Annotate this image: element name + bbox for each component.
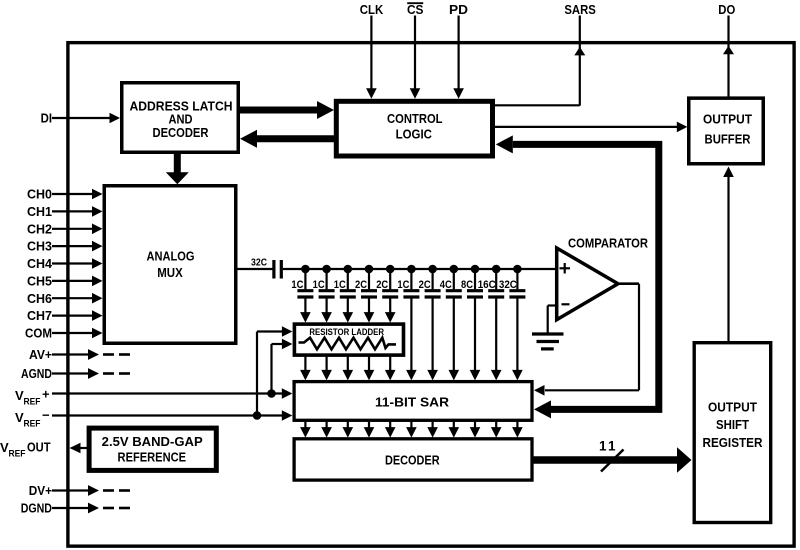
node: cap bus junction 4 [365,265,374,274]
pin VREF+ [15,387,292,407]
bus: address latch to control logic [239,101,334,119]
node: cap bus junction 8 [450,265,459,274]
pin CH3 [27,239,103,254]
pin CLK [360,2,384,99]
capacitor 1C (bit 3) [334,269,356,323]
block: ADDRESS LATCH AND DECODER U1 [122,83,239,153]
pin CH5 [27,274,103,289]
pin COM [25,326,103,341]
pin VREF- [15,408,292,429]
wire: SAR bit 5 to decoder [385,421,396,438]
capacitor 1C (bit 1) [291,269,313,323]
wire: output shift register to output buffer [723,167,734,344]
wire: SAR bit 3 to decoder [343,421,354,438]
svg-text:BUFFER: BUFFER [705,131,752,146]
block: OUTPUT SHIFT REGISTER U8 [694,343,771,523]
pin VREFOUT [0,440,89,459]
capacitor 16C (bit 10) [478,269,505,380]
resistor ladder zigzag symbol [299,338,397,350]
bus: control logic to address latch [240,130,337,148]
pin CH1 [27,204,103,219]
pin CH6 [27,291,103,306]
capacitor 2C (bit 5) [376,269,398,323]
capacitor 32C (bit 11) [499,269,526,380]
svg-text:1: 1 [599,439,607,454]
svg-text:DV+: DV+ [29,483,53,498]
wire: SAR bit 4 to decoder [364,421,375,438]
pin AGND [21,366,130,381]
label COMPARATOR [568,236,649,251]
wire: control logic to output buffer [495,122,687,133]
svg-text:COMPARATOR: COMPARATOR [568,236,649,251]
wire: VREF- branch to resistor ladder input [253,326,293,420]
svg-text:SHIFT: SHIFT [716,417,749,432]
node: cap bus junction 1 [301,265,310,274]
svg-text:32C: 32C [251,258,267,269]
svg-text:REF: REF [24,397,41,407]
svg-text:OUTPUT: OUTPUT [703,111,752,126]
svg-text:SARS: SARS [564,2,596,17]
svg-text:DGND: DGND [21,501,52,516]
block: 2.5V BAND-GAP REFERENCE U9 [89,428,216,470]
svg-text:DECODER: DECODER [153,125,210,140]
node: cap bus junction 6 [407,265,416,274]
wire: SAR bit 7 to decoder [427,421,438,438]
svg-text:CH7: CH7 [27,308,52,323]
wire: capacitor array common bus to comparator + input [283,268,557,270]
capacitor 4C (bit 8) [440,269,462,380]
wire: resistor ladder tap 1 to SAR [300,356,311,380]
svg-text:LOGIC: LOGIC [396,127,433,142]
svg-text:DI: DI [41,111,52,126]
svg-text:CH6: CH6 [27,291,52,306]
bus: control logic / 11-bit SAR bidirectional [496,135,659,418]
svg-text:COM: COM [25,326,52,341]
ground [532,334,564,349]
capacitor 8C (bit 9) [461,269,483,380]
node: cap bus junction 2 [322,265,331,274]
pin AV+ [29,347,130,362]
wire: resistor ladder tap 4 to SAR [364,356,375,380]
svg-text:11-BIT SAR: 11-BIT SAR [375,395,450,410]
svg-text:DO: DO [718,2,735,17]
wire: SAR bit 11 to decoder [512,421,523,438]
wire: resistor ladder tap 5 to SAR [385,356,396,380]
svg-text:2.5V BAND-GAP: 2.5V BAND-GAP [102,434,203,449]
node: cap bus junction 10 [492,265,501,274]
svg-text:CLK: CLK [360,2,384,17]
svg-text:1: 1 [608,439,616,454]
wire: SAR bit 8 to decoder [449,421,460,438]
wire: SAR bit 1 to decoder [300,421,311,438]
pin CH0 [27,187,103,202]
svg-text:CH5: CH5 [27,274,52,289]
capacitor 32C (series input cap) [251,258,281,279]
bus: decoder to output shift register (11 bits) [532,447,692,472]
wire: SAR bit 6 to decoder [406,421,417,438]
block: OUTPUT BUFFER U3 [689,98,764,164]
svg-text:CH1: CH1 [27,204,52,219]
pin CH7 [27,308,103,323]
svg-text:−: − [42,408,50,423]
block: ANALOG MUX U4 [104,186,236,344]
pin CH2 [27,221,103,236]
svg-text:OUT: OUT [27,440,51,455]
svg-text:DECODER: DECODER [385,453,440,468]
svg-text:REGISTER: REGISTER [703,435,764,450]
svg-text:ANALOG: ANALOG [147,249,195,264]
block: CONTROL LOGIC U2 [336,101,492,156]
capacitor 1C (bit 6) [397,269,419,380]
node: cap bus junction 11 [513,265,522,274]
op-amp comparator U5 [557,248,618,320]
svg-text:MUX: MUX [157,265,183,280]
node: cap bus junction 5 [386,265,395,274]
pin DO [718,2,735,97]
wire: SAR bit 2 to decoder [321,421,332,438]
wire: SAR bit 9 to decoder [470,421,481,438]
block: 11-BIT SAR U6 [294,382,532,421]
pin PD [449,2,468,99]
wire: SAR bit 10 to decoder [491,421,502,438]
svg-text:CH3: CH3 [27,239,52,254]
wire: resistor ladder tap 2 to SAR [321,356,332,380]
svg-text:AV+: AV+ [29,347,52,362]
pin DI [41,111,120,126]
svg-text:CS: CS [407,2,424,17]
svg-text:+: + [42,387,50,402]
pin DGND [21,501,130,516]
capacitor 2C (bit 7) [419,269,441,380]
svg-text:AGND: AGND [21,366,52,381]
svg-text:PD: PD [449,2,468,17]
bus width marker 11 [599,439,623,472]
svg-text:REF: REF [24,419,41,429]
pin CS (active low) [407,2,424,99]
svg-text:CH2: CH2 [27,221,52,236]
block: RESISTOR LADDER R1 [294,324,403,355]
node: cap bus junction 7 [428,265,437,274]
pin SARS [495,2,596,105]
wire: VREF+ branch to resistor ladder input [267,339,292,398]
svg-text:RESISTOR LADDER: RESISTOR LADDER [309,327,384,338]
wire: analog mux output node [238,268,273,270]
svg-text:CH0: CH0 [27,187,52,202]
svg-text:OUTPUT: OUTPUT [708,400,757,415]
node: cap bus junction 9 [471,265,480,274]
svg-text:REFERENCE: REFERENCE [118,450,187,465]
pin CH4 [27,256,103,271]
svg-text:REF: REF [9,449,26,459]
node: cap bus junction 3 [344,265,353,274]
wire: comparator - input to ground [548,306,557,334]
pin DV+ [29,483,130,498]
wire: comparator output to SAR [534,284,639,396]
block: DECODER U7 [294,439,532,480]
bus: address latch to analog mux [166,152,189,184]
capacitor 2C (bit 4) [355,269,377,323]
svg-text:CONTROL: CONTROL [387,111,443,126]
capacitor 1C (bit 2) [313,269,335,323]
wire: resistor ladder tap 3 to SAR [343,356,354,380]
svg-text:CH4: CH4 [27,256,53,271]
